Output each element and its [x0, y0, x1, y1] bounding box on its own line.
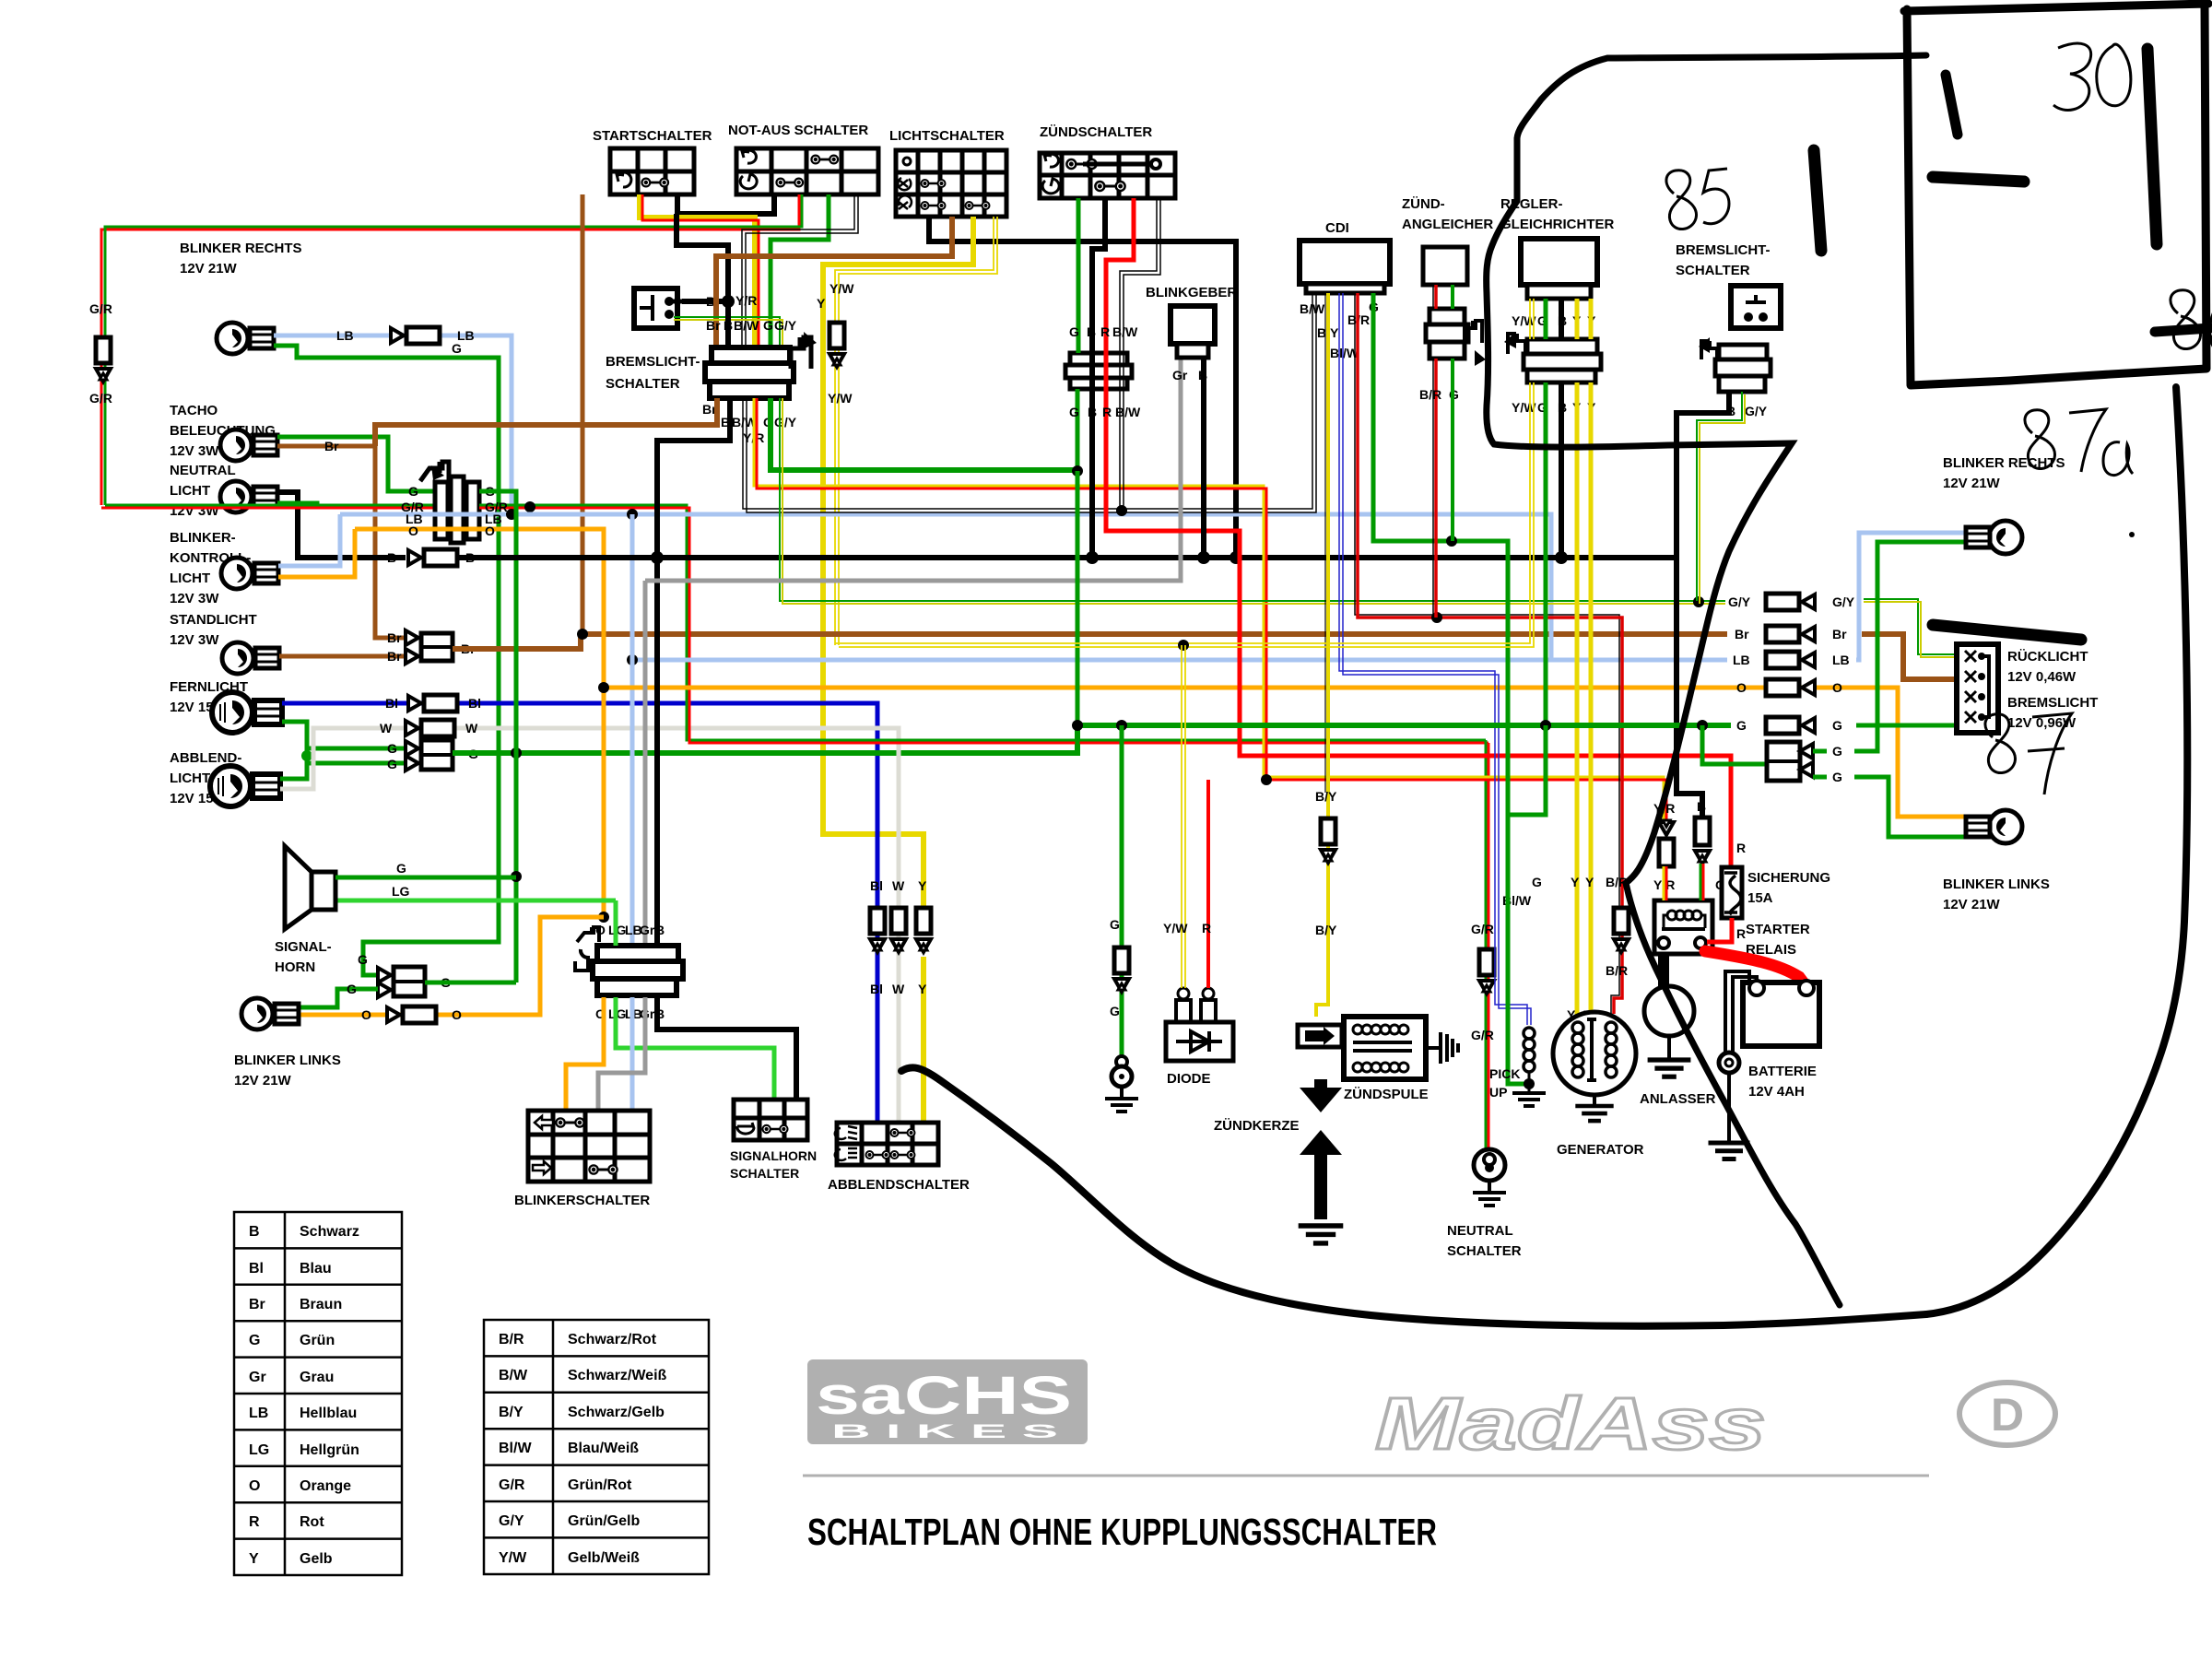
svg-text:G/R: G/R — [89, 391, 112, 406]
svg-text:SCHALTER: SCHALTER — [1676, 263, 1750, 278]
connector bremslicht right — [1699, 337, 1771, 418]
svg-text:B/R: B/R — [1419, 387, 1441, 402]
wire G row through connector to mid — [479, 491, 516, 982]
svg-text:BLINKER LINKS: BLINKER LINKS — [1943, 877, 2050, 892]
wire G from not-aus to headlamp connector — [771, 194, 829, 346]
svg-text:Hellgrün: Hellgrün — [300, 1442, 359, 1458]
connector B above relay — [1695, 799, 1738, 900]
svg-text:12V 3W: 12V 3W — [170, 591, 219, 606]
switch S4 ZUENDSCHALTER — [1040, 124, 1175, 198]
svg-text:Br: Br — [249, 1297, 265, 1312]
svg-text:BLINKGEBER: BLINKGEBER — [1146, 285, 1237, 300]
handwriting 30 — [2053, 43, 2131, 110]
wire freehand right edge — [1926, 387, 2187, 1314]
svg-text:G/R: G/R — [499, 1477, 525, 1493]
wire LB from kontroll lamp up to LB bus — [278, 514, 340, 566]
lamp BLINKER LINKS rear — [1943, 810, 2050, 912]
svg-text:B I K E S: B I K E S — [831, 1421, 1058, 1442]
svg-text:Gr: Gr — [249, 1370, 266, 1385]
svg-text:12V 3W: 12V 3W — [170, 632, 219, 648]
svg-text:Schwarz/Rot: Schwarz/Rot — [568, 1332, 657, 1347]
svg-text:Y: Y — [817, 296, 826, 311]
svg-text:B/W: B/W — [499, 1368, 528, 1383]
svg-text:B/Y: B/Y — [1315, 789, 1337, 804]
wire thick red relay to battery — [1705, 951, 1805, 984]
svg-text:BREMSLICHT-: BREMSLICHT- — [606, 354, 700, 370]
svg-text:G: G — [396, 861, 406, 876]
wire G riser to green bus — [1076, 471, 1080, 753]
connector G/G right double — [1702, 725, 1842, 784]
svg-text:B: B — [1088, 405, 1097, 419]
wire B regler to black bus — [1559, 299, 1564, 558]
svg-text:saCHS: saCHS — [816, 1366, 1072, 1426]
wire LG from horn — [335, 899, 616, 903]
svg-text:12V 21W: 12V 21W — [1943, 476, 2001, 491]
svg-text:BLINKER LINKS: BLINKER LINKS — [234, 1053, 341, 1068]
svg-text:ZÜNDKERZE: ZÜNDKERZE — [1214, 1118, 1300, 1134]
svg-text:G/Y: G/Y — [774, 415, 797, 429]
svg-text:G: G — [387, 741, 397, 756]
connector instrument cluster — [420, 462, 479, 543]
wire Y2 regler to generator — [1589, 299, 1594, 1023]
svg-text:12V 21W: 12V 21W — [1943, 897, 2001, 912]
connector Br/Br double — [387, 630, 476, 664]
svg-text:B: B — [724, 318, 733, 333]
svg-text:SIGNALHORN: SIGNALHORN — [730, 1148, 817, 1163]
wire O bus — [355, 529, 604, 917]
svg-text:G: G — [1832, 718, 1842, 733]
svg-text:Br: Br — [324, 439, 339, 453]
wire freehand bottom sweep — [901, 1067, 1926, 1325]
lamp BLINKER LINKS front — [234, 998, 341, 1088]
box REGLER-GLEICHRICHTER — [1500, 196, 1615, 328]
wire B from neutral licht to black bus — [277, 492, 406, 558]
svg-text:R: R — [1736, 841, 1746, 855]
svg-text:12V 4AH: 12V 4AH — [1748, 1084, 1805, 1100]
svg-text:G: G — [347, 982, 357, 996]
svg-text:O: O — [408, 524, 418, 538]
svg-text:STARTER: STARTER — [1746, 922, 1810, 937]
wire G from lamp1 — [274, 346, 499, 968]
coil ZUENDSPULE — [1298, 1017, 1429, 1102]
wire Y/R below connector to right — [754, 398, 1666, 819]
wire B/W pair zuendschalter to B/W bus — [1120, 198, 1160, 512]
switch S1 STARTSCHALTER — [593, 128, 712, 194]
svg-text:CDI: CDI — [1325, 220, 1349, 236]
wire G/R pair from not-aus down-left to far left column — [101, 194, 802, 505]
svg-text:Grün: Grün — [300, 1333, 335, 1348]
wire Br from not-aus switch area down (NOT-AUS brown) — [581, 194, 585, 634]
svg-text:LG: LG — [392, 884, 410, 899]
switch NEUTRAL SCHALTER — [1447, 1149, 1522, 1259]
wire G from fernlicht down to G/G connector — [282, 722, 406, 748]
lamp STANDLICHT — [170, 612, 279, 674]
wire G bus from G/G connector to engine column — [453, 725, 1077, 753]
svg-text:DIODE: DIODE — [1167, 1071, 1211, 1087]
connector zuendschalter lower — [1065, 198, 1134, 389]
svg-text:B/R: B/R — [499, 1332, 524, 1347]
svg-text:B: B — [387, 550, 396, 565]
svg-text:B: B — [249, 1224, 260, 1240]
handwriting 86 — [2171, 290, 2212, 356]
svg-text:G: G — [1110, 1004, 1120, 1018]
svg-text:O: O — [595, 923, 606, 937]
svg-text:SIGNAL-: SIGNAL- — [275, 939, 332, 955]
svg-text:12V 21W: 12V 21W — [234, 1073, 292, 1088]
svg-text:Br: Br — [387, 630, 402, 645]
svg-text:Grün/Rot: Grün/Rot — [568, 1477, 632, 1493]
wire Bl from fernlicht to abblendschalter — [282, 703, 877, 1123]
handwriting 85 — [1666, 169, 1729, 229]
freehand thick marks inside box — [1946, 75, 1958, 135]
box CDI — [1300, 220, 1390, 360]
svg-text:Y: Y — [1571, 875, 1580, 889]
wire B/R from CDI to generator — [1355, 293, 1622, 1014]
diode D1 — [1166, 988, 1233, 1087]
svg-text:B/W: B/W — [734, 318, 759, 333]
switch ABBLENDSCHALTER — [828, 1123, 970, 1193]
wire freehand frame outline main — [1487, 55, 1926, 1305]
svg-text:B/W: B/W — [1112, 324, 1138, 339]
stray ink dot — [2129, 532, 2135, 537]
divider line — [803, 1475, 1929, 1477]
svg-text:Y/W: Y/W — [828, 391, 853, 406]
lamp FERNLICHT — [170, 679, 282, 733]
wire G/R bus from instrument connector to mid column — [479, 505, 1488, 743]
svg-text:UP: UP — [1489, 1085, 1507, 1100]
svg-text:SICHERUNG: SICHERUNG — [1747, 870, 1830, 886]
svg-text:BLINKER RECHTS: BLINKER RECHTS — [180, 241, 302, 256]
wire LB relay to blinkerschalter — [630, 997, 635, 1111]
generator GENERATOR — [1553, 1012, 1644, 1158]
svg-text:NOT-AUS SCHALTER: NOT-AUS SCHALTER — [728, 123, 868, 138]
wire LB riser to relay — [630, 514, 635, 946]
svg-text:ABBLENDSCHALTER: ABBLENDSCHALTER — [828, 1177, 970, 1193]
svg-text:G/R: G/R — [89, 301, 112, 316]
svg-text:R: R — [1202, 921, 1211, 935]
svg-text:G/Y: G/Y — [499, 1513, 524, 1529]
wire B relay to signalhorn schalter — [657, 997, 796, 1100]
wire G from CDI to engine column — [1373, 293, 1530, 1084]
svg-text:G/R: G/R — [1471, 922, 1494, 936]
terminal G ground bulb — [1105, 1056, 1138, 1112]
svg-text:Rot: Rot — [300, 1514, 324, 1530]
wire LB lower bus to right — [632, 658, 1727, 663]
wire G to ruecklicht — [1856, 724, 1957, 728]
switch S3 LICHTSCHALTER — [889, 128, 1006, 217]
svg-text:Br: Br — [387, 649, 402, 664]
svg-text:B: B — [655, 923, 665, 937]
wire Y/W regler to Y/W bus — [835, 299, 1534, 647]
svg-text:R: R — [249, 1514, 260, 1530]
svg-text:RÜCKLICHT: RÜCKLICHT — [2007, 649, 2088, 665]
wire R fuse to relay — [1707, 918, 1732, 942]
wire Br below connector to left — [375, 398, 717, 446]
logo D oval — [1959, 1382, 2055, 1445]
svg-text:STANDLICHT: STANDLICHT — [170, 612, 257, 628]
svg-text:Blau: Blau — [300, 1261, 332, 1277]
svg-text:NEUTRAL: NEUTRAL — [1447, 1223, 1513, 1239]
wire W from abblendlicht to abblendschalter — [280, 728, 899, 1123]
svg-text:BREMSLICHT: BREMSLICHT — [2007, 695, 2098, 711]
svg-text:B/W: B/W — [1115, 405, 1141, 419]
lamp TACHO BELEUCHTUNG — [170, 403, 277, 461]
svg-text:Gelb/Weiß: Gelb/Weiß — [568, 1550, 640, 1566]
svg-text:G/Y: G/Y — [774, 318, 797, 333]
svg-text:BATTERIE: BATTERIE — [1748, 1064, 1817, 1079]
svg-text:G: G — [452, 341, 462, 356]
wire G regler to green bus — [1544, 299, 1548, 725]
svg-text:LICHT: LICHT — [170, 771, 210, 786]
wire B bus long — [458, 555, 1677, 560]
svg-text:Br: Br — [1735, 627, 1749, 641]
wire B/W pair below connector to CDI — [743, 293, 1316, 512]
svg-text:GENERATOR: GENERATOR — [1557, 1142, 1644, 1158]
wire B from lichtschalter to black bus — [929, 217, 1236, 558]
wire G main bus to right — [1077, 723, 1731, 728]
wire G riser to ground terminal — [1120, 725, 1124, 1055]
wire G zuendschalter — [1077, 198, 1078, 471]
svg-text:12V 0,46W: 12V 0,46W — [2007, 669, 2077, 685]
svg-text:12V 3W: 12V 3W — [170, 443, 219, 459]
svg-text:ZÜND-: ZÜND- — [1402, 196, 1445, 212]
svg-text:15A: 15A — [1747, 890, 1773, 906]
connector headlamp (stacked bars) — [702, 318, 817, 445]
svg-text:B/Y: B/Y — [499, 1405, 524, 1420]
svg-text:Gr: Gr — [640, 923, 655, 937]
svg-text:SCHALTER: SCHALTER — [730, 1166, 799, 1181]
svg-text:W: W — [892, 878, 905, 893]
lamp BLINKER-KONTROLL-LICHT — [170, 530, 278, 606]
svg-text:LICHTSCHALTER: LICHTSCHALTER — [889, 128, 1005, 144]
svg-text:ANGLEICHER: ANGLEICHER — [1402, 217, 1493, 232]
wire B below connector to relay — [657, 398, 730, 946]
wire B blinkgeber to bus — [1201, 358, 1206, 558]
wire G lower to rear blinker links — [1813, 777, 1969, 837]
svg-text:R: R — [1736, 926, 1746, 941]
svg-text:G/Y: G/Y — [1745, 404, 1768, 418]
connector G/G near horn — [358, 952, 451, 997]
svg-text:G/Y: G/Y — [1832, 594, 1855, 609]
wire G below connector to zuendschalter column — [771, 398, 1077, 470]
svg-text:TACHO: TACHO — [170, 403, 218, 418]
lamp RUECKLICHT/BREMSLICHT box — [1957, 644, 2098, 733]
wire Y/R from startschalter to headlamp connector — [640, 194, 759, 346]
box BLINKGEBER — [1146, 285, 1237, 382]
svg-text:Bl: Bl — [870, 982, 883, 996]
switch SIGNALHORN SCHALTER — [730, 1100, 817, 1181]
svg-text:Y: Y — [918, 982, 927, 996]
handwriting 87a — [2025, 409, 2133, 476]
svg-text:G: G — [1110, 917, 1120, 932]
wire G angleicher down — [1451, 285, 1454, 541]
wire O lower bus to right — [604, 686, 1898, 690]
svg-text:MadAss: MadAss — [1375, 1382, 1766, 1465]
svg-text:LB: LB — [249, 1406, 268, 1421]
wire G from tacho to instrument connector — [277, 437, 435, 491]
svg-text:W: W — [380, 721, 393, 735]
wire G/R pair down to neutral schalter — [1486, 740, 1488, 1149]
handwriting 87 — [1985, 713, 2072, 794]
wire G/Y to ruecklicht — [1864, 599, 1957, 657]
svg-text:BLINKER-: BLINKER- — [170, 530, 236, 546]
svg-text:BREMSLICHT-: BREMSLICHT- — [1676, 242, 1771, 258]
wire B from not-aus to bremslicht-schalter node — [677, 214, 728, 304]
svg-text:Bl/W: Bl/W — [499, 1441, 532, 1456]
svg-text:Y: Y — [249, 1551, 259, 1567]
svg-text:B/W: B/W — [1300, 301, 1325, 316]
svg-text:O: O — [361, 1007, 371, 1022]
connector zuend-angleicher — [1426, 309, 1486, 366]
battery BATTERIE 12V 4AH — [1709, 971, 1820, 1159]
spark gap symbol right of coil — [1426, 1032, 1458, 1064]
svg-text:PICK: PICK — [1489, 1066, 1520, 1081]
lamp BLINKER RECHTS front — [180, 241, 302, 354]
wire freehand top-right box — [1904, 4, 2208, 385]
svg-text:O: O — [1832, 680, 1842, 695]
wire B/R angleicher down to B/R bus — [1433, 285, 1436, 618]
svg-text:O: O — [485, 524, 495, 538]
speaker SIGNAL-HORN — [275, 846, 335, 975]
box ZUEND-ANGLEICHER — [1402, 196, 1493, 285]
svg-text:Br: Br — [1832, 627, 1847, 641]
svg-text:W: W — [892, 982, 905, 996]
svg-text:Grün/Gelb: Grün/Gelb — [568, 1513, 640, 1529]
lamp ABBLENDLICHT — [170, 750, 280, 806]
svg-text:B: B — [1697, 799, 1706, 814]
wire O from kontroll lamp up to O bus — [278, 529, 355, 577]
svg-text:Schwarz/Gelb: Schwarz/Gelb — [568, 1405, 665, 1420]
switch BREMSLICHT-SCHALTER (left) — [606, 288, 700, 392]
svg-text:Gelb: Gelb — [300, 1551, 333, 1567]
svg-text:SCHALTER: SCHALTER — [606, 376, 680, 392]
svg-text:Grau: Grau — [300, 1370, 334, 1385]
svg-text:STARTSCHALTER: STARTSCHALTER — [593, 128, 712, 144]
wire Y/W pair from lichtschalter down — [835, 217, 997, 645]
wire Gr riser from gray bus to relay — [643, 581, 648, 946]
svg-text:Br: Br — [706, 318, 721, 333]
wire LB to rear blinker rechts — [1856, 533, 1969, 660]
svg-text:Bl: Bl — [385, 696, 398, 711]
svg-text:NEUTRAL: NEUTRAL — [170, 463, 236, 478]
svg-text:LG: LG — [249, 1442, 269, 1458]
wire G/Y from brems-schalter to headlamp connector — [674, 317, 782, 346]
wire O from lamp blinker links front — [297, 917, 604, 1015]
lamp BLINKER RECHTS rear — [1943, 455, 2065, 554]
connector regler — [1504, 332, 1601, 415]
svg-text:LB: LB — [336, 328, 354, 343]
svg-text:Y/W: Y/W — [1163, 921, 1188, 935]
wire black U between startschalter and not-aus — [677, 194, 774, 214]
spark plug ZUENDKERZE arrows — [1214, 1079, 1343, 1243]
connector Y/R above relay — [1653, 801, 1675, 900]
svg-text:G: G — [1069, 324, 1079, 339]
fuse SICHERUNG 15A — [1722, 841, 1830, 941]
wire G/Y below connector to right bus — [780, 398, 1725, 604]
wire Br to ruecklicht — [1862, 634, 1957, 679]
svg-text:B: B — [1087, 324, 1096, 339]
svg-text:Y/W: Y/W — [829, 281, 854, 296]
wire LG from relay to signalhorn schalter — [616, 900, 774, 1100]
wire B/W pair from not-aus to headlamp connector — [742, 194, 858, 346]
wire Br from standlicht to Br/Br connector — [279, 654, 406, 659]
svg-text:Braun: Braun — [300, 1297, 342, 1312]
starter motor ANLASSER — [1640, 954, 1716, 1107]
wire O to rear blinker links — [1858, 688, 1969, 817]
svg-text:Y/W: Y/W — [499, 1550, 527, 1566]
svg-text:R: R — [1102, 405, 1112, 419]
wire LB from lamp1 — [274, 335, 512, 514]
pickup coil PICK UP — [1489, 1028, 1546, 1106]
svg-text:SCHALTER: SCHALTER — [1447, 1243, 1522, 1259]
wire Gr bus to blinkgeber — [645, 358, 1181, 581]
table color legend 2 — [484, 1320, 709, 1574]
svg-text:G: G — [408, 484, 418, 499]
starter relay STARTER RELAIS — [1654, 900, 1810, 958]
wire Br from lichtschalter to headlamp connector — [716, 217, 952, 346]
wire Y from lichtschalter to abblendschalter column — [823, 217, 973, 1123]
svg-text:SCHALTPLAN OHNE KUPPLUNGSSCHAL: SCHALTPLAN OHNE KUPPLUNGSSCHALTER — [807, 1511, 1437, 1553]
lamp NEUTRAL LICHT — [170, 463, 277, 519]
svg-text:Bl: Bl — [249, 1261, 264, 1277]
svg-text:Y: Y — [918, 878, 927, 893]
svg-text:GLEICHRICHTER: GLEICHRICHTER — [1500, 217, 1615, 232]
logo SACHS BIKES — [807, 1359, 1088, 1444]
wire R to diode — [1206, 780, 1210, 988]
svg-text:Y: Y — [1585, 875, 1594, 889]
switch S2 NOT-AUS SCHALTER — [728, 123, 878, 194]
svg-text:Bl: Bl — [468, 696, 481, 711]
wire G/Y brems right down to bus — [1697, 392, 1745, 604]
svg-text:G/Y: G/Y — [1728, 594, 1751, 609]
svg-text:12V 21W: 12V 21W — [180, 261, 238, 276]
svg-text:Hellblau: Hellblau — [300, 1406, 357, 1421]
svg-text:G: G — [1832, 744, 1842, 759]
svg-text:ZÜNDSPULE: ZÜNDSPULE — [1344, 1087, 1429, 1102]
wire B brems right to bus elbow — [1677, 392, 1729, 818]
svg-text:G: G — [387, 757, 397, 771]
svg-text:HORN: HORN — [275, 959, 315, 975]
svg-text:ANLASSER: ANLASSER — [1640, 1091, 1716, 1107]
wire G upper to rear blinker rechts — [1813, 542, 1969, 751]
svg-text:LICHT: LICHT — [170, 571, 210, 586]
wire G from abblendlicht up to G/G connector — [280, 763, 406, 779]
wire G jog from regler G to engine green — [1508, 725, 1546, 815]
wire Bl/W pair from CDI to pick up — [1339, 293, 1531, 1025]
svg-text:LB: LB — [1733, 653, 1750, 667]
wire G from lamp blinker links front up to connector — [297, 989, 378, 1007]
connector relay block (flasher) — [575, 923, 683, 1021]
wire O relay to blinkerschalter — [566, 997, 604, 1111]
svg-text:Bl: Bl — [870, 878, 883, 893]
svg-text:ZÜNDSCHALTER: ZÜNDSCHALTER — [1040, 124, 1152, 140]
wire Y/W to diode — [1182, 645, 1185, 988]
svg-text:B/Y: B/Y — [1315, 923, 1337, 937]
svg-text:O: O — [1736, 680, 1747, 695]
svg-text:B/R: B/R — [1606, 963, 1628, 978]
switch BREMSLICHT-SCHALTER (right) — [1676, 242, 1781, 328]
wire B/Y from CDI to zuendspule — [1316, 293, 1328, 1017]
svg-text:D: D — [1991, 1389, 2024, 1441]
wire LB bus — [340, 514, 1551, 660]
svg-text:Gr: Gr — [1172, 368, 1188, 382]
svg-text:G: G — [249, 1333, 260, 1348]
wire G/R stub from neutral licht — [101, 502, 435, 508]
wire B zuendschalter to bus — [1092, 198, 1105, 558]
svg-text:O: O — [249, 1478, 260, 1494]
svg-text:Blau/Weiß: Blau/Weiß — [568, 1441, 639, 1456]
svg-text:W: W — [465, 721, 478, 735]
